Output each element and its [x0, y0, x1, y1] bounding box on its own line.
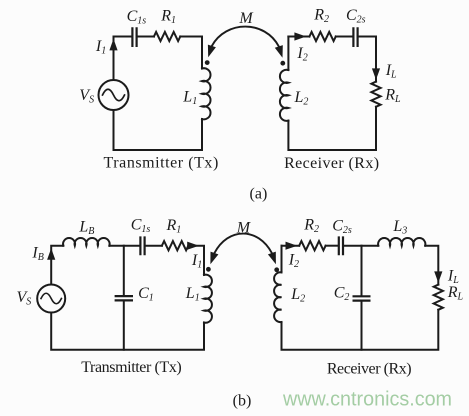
- node dot receiver (b): [274, 267, 279, 272]
- current arrow IB: [47, 248, 55, 260]
- svg-text:(b): (b): [233, 392, 252, 409]
- middle branch wire lower (b receiver): [361, 302, 363, 350]
- wire top-left corner to coil: [281, 246, 283, 273]
- capacitor C1s: [132, 28, 136, 46]
- wire resistor to capacitor: [336, 36, 353, 38]
- resistor RL (a): [371, 82, 380, 107]
- resistor R2: [309, 32, 335, 41]
- inductor L1: [202, 68, 211, 119]
- svg-text:Receiver (Rx): Receiver (Rx): [284, 155, 379, 172]
- node dot receiver (a): [280, 61, 285, 66]
- wire top receiver to resistor: [282, 245, 300, 247]
- voltage source VS (a): [99, 80, 129, 110]
- wire resistor to top-right corner down to coil: [180, 37, 202, 69]
- svg-text:www.cntronics.com: www.cntronics.com: [282, 389, 452, 411]
- middle branch wire upper (b receiver): [361, 246, 363, 296]
- wire capacitor to top-right corner down: [359, 37, 376, 82]
- resistor RL (b): [434, 285, 443, 310]
- capacitor C2s (b): [339, 238, 343, 255]
- capacitor C2s: [353, 28, 357, 46]
- inductor L1 (b): [204, 275, 212, 323]
- wire cap to resistor: [146, 245, 162, 247]
- inductor L3: [378, 238, 425, 246]
- resistor R1 (b): [162, 241, 188, 250]
- node dot transmitter (b): [206, 267, 211, 272]
- inductor L2: [280, 70, 288, 121]
- wire left-top segment: [114, 37, 132, 81]
- inductor LB: [63, 238, 110, 246]
- wire top-left corner to coil: [287, 37, 289, 71]
- wire resistor to corner down to coil: [188, 246, 204, 275]
- current arrow I1: [109, 39, 117, 51]
- resistor R1: [154, 32, 180, 41]
- mutual inductance arrow M (b): [214, 234, 272, 254]
- svg-text:Transmitter (Tx): Transmitter (Tx): [81, 359, 181, 376]
- wire L3 to top-right corner down: [425, 246, 438, 285]
- wire resistor to capacitor: [326, 245, 338, 247]
- svg-text:Receiver (Rx): Receiver (Rx): [327, 361, 411, 378]
- svg-text:M: M: [236, 220, 252, 237]
- current arrow I1 (b): [187, 242, 199, 250]
- current arrow IL (a): [372, 68, 380, 79]
- resistor R2 (b): [299, 241, 325, 250]
- wire coil to C1s: [109, 245, 139, 247]
- capacitor C1s (b): [140, 238, 144, 255]
- middle branch wire lower: [123, 301, 125, 349]
- current arrow I2: [294, 32, 306, 40]
- svg-text:M: M: [238, 10, 254, 27]
- svg-text:(a): (a): [250, 186, 268, 203]
- wire cap to resistor: [138, 36, 154, 38]
- node dot transmitter (a): [205, 60, 210, 65]
- wire coil bottom, bottom wire, left lower: [51, 313, 204, 350]
- capacitor C1 (b): [116, 296, 132, 300]
- inductor L2 (b): [274, 272, 281, 322]
- wire coil bottom, bottom wire: [282, 310, 439, 350]
- current arrow I2 (b): [286, 242, 298, 250]
- wire top of receiver to resistor: [288, 36, 309, 38]
- wire coil bottom, bottom wire, right lower: [288, 107, 376, 150]
- current arrow IL (b): [434, 271, 442, 282]
- svg-text:Transmitter (Tx): Transmitter (Tx): [104, 155, 219, 172]
- wire left upper: [51, 246, 63, 285]
- voltage source VS (b): [37, 285, 65, 313]
- capacitor C2: [354, 296, 370, 300]
- wire capacitor to L3: [344, 245, 378, 247]
- middle branch wire upper: [123, 246, 125, 295]
- wire coil to bottom, bottom wire, left lower wire: [114, 110, 203, 150]
- mutual inductance arrow M (a): [212, 27, 279, 47]
